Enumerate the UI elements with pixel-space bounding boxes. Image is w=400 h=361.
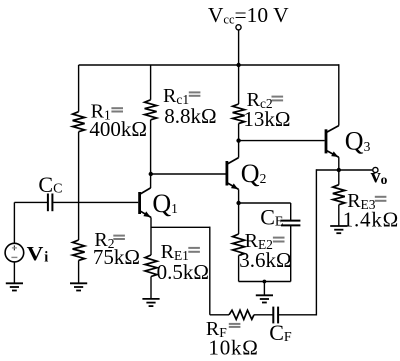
wire ground stem bbox=[263, 282, 265, 296]
node Q2 collector junction bbox=[236, 138, 240, 142]
resistor Rc1 bbox=[150, 65, 152, 100]
transistor Q2 bbox=[225, 161, 228, 186]
capacitor CC bbox=[47, 194, 49, 212]
svg-text:CF: CF bbox=[269, 320, 292, 345]
ground vi bbox=[6, 282, 23, 284]
node RE2/CE ground junction bbox=[263, 280, 267, 284]
wire feedback right vertical bbox=[315, 169, 317, 315]
svg-text:8.8kΩ: 8.8kΩ bbox=[164, 104, 216, 128]
svg-text:Vcc=10 V: Vcc=10 V bbox=[208, 3, 289, 27]
terminal Vcc bbox=[236, 25, 241, 30]
wire RF to CF bbox=[254, 314, 273, 316]
terminal vo bbox=[373, 167, 378, 172]
ground RE2/CE bbox=[256, 294, 273, 296]
svg-text:3.6kΩ: 3.6kΩ bbox=[239, 248, 291, 272]
source vi circle bbox=[5, 243, 24, 262]
wire cap to Q1 base bbox=[53, 201, 138, 203]
wire Q1 collector to Q2 base bbox=[151, 173, 226, 175]
wire Q2 collector bbox=[238, 141, 240, 158]
node Q2 emitter junction bbox=[236, 201, 240, 205]
transistor Q1 bbox=[138, 192, 141, 214]
wire Q1 emitter bbox=[150, 217, 152, 255]
node Vcc-rail junction bbox=[236, 63, 240, 67]
capacitor CE bbox=[281, 220, 300, 222]
node Q3 emitter junction bbox=[337, 168, 341, 172]
wire CE top bbox=[290, 203, 292, 220]
ground RE1 bbox=[142, 298, 159, 300]
svg-text:0.5kΩ: 0.5kΩ bbox=[157, 260, 209, 284]
svg-text:vo: vo bbox=[371, 166, 388, 188]
svg-text:CE: CE bbox=[260, 205, 283, 230]
capacitor CF bbox=[272, 307, 274, 324]
resistor RE1 bbox=[145, 255, 157, 277]
svg-text:Q1: Q1 bbox=[152, 189, 178, 218]
svg-text:Q2: Q2 bbox=[241, 159, 267, 188]
wire feedback left vertical bbox=[209, 227, 211, 315]
resistor RE3 bbox=[338, 170, 340, 185]
wire Q1 emitter feedback tap bbox=[151, 226, 210, 228]
wire Q2 emitter bbox=[238, 189, 240, 203]
node Q1 collector junction bbox=[149, 172, 153, 176]
wire CE bottom bbox=[290, 226, 292, 282]
wire CF to vo branch bbox=[279, 314, 317, 316]
svg-text:400kΩ: 400kΩ bbox=[89, 117, 147, 141]
wire input horizontal bbox=[14, 201, 47, 203]
wire Q2 emitter to CE bbox=[239, 202, 291, 204]
resistor RF bbox=[229, 310, 254, 319]
ground RE3 bbox=[330, 225, 347, 227]
wire Vcc stem bbox=[238, 30, 240, 65]
wire RE2/CE bottom bbox=[239, 281, 291, 283]
wire Vcc top rail bbox=[79, 64, 340, 66]
resistor R2 bbox=[78, 202, 80, 240]
ground R2 bbox=[70, 282, 87, 284]
wire vi stem bbox=[13, 202, 15, 243]
resistor RE2 bbox=[238, 203, 240, 234]
svg-text:1.4kΩ: 1.4kΩ bbox=[343, 208, 399, 232]
svg-text:75kΩ: 75kΩ bbox=[93, 245, 140, 269]
wire vo node horizontal bbox=[316, 169, 372, 171]
wire feedback bottom left bbox=[210, 314, 229, 316]
wire Q3 emitter bbox=[338, 157, 340, 170]
transistor Q3 bbox=[325, 129, 328, 153]
wire Q3 collector to rail bbox=[338, 64, 340, 125]
svg-text:10kΩ: 10kΩ bbox=[208, 336, 258, 360]
svg-text:Q3: Q3 bbox=[345, 127, 371, 156]
svg-text:i: i bbox=[44, 250, 48, 266]
wire Q2 collector to Q3 base bbox=[239, 140, 325, 142]
svg-text:CC: CC bbox=[38, 172, 62, 197]
svg-text:13kΩ: 13kΩ bbox=[243, 107, 290, 131]
wire vi to ground bbox=[13, 262, 15, 283]
resistor R1 bbox=[78, 65, 80, 112]
svg-text:V: V bbox=[27, 242, 44, 264]
resistor Rc2 bbox=[238, 65, 240, 104]
